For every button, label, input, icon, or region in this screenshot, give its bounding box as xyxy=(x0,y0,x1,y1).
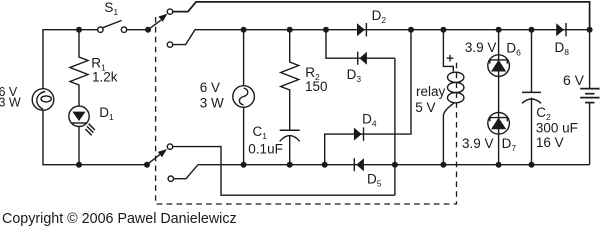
svg-text:D4: D4 xyxy=(362,111,377,128)
svg-text:relay: relay xyxy=(416,84,446,99)
svg-text:Copyright © 2006 Pawel Daniele: Copyright © 2006 Pawel Danielewicz xyxy=(2,211,237,227)
svg-text:D2: D2 xyxy=(372,8,387,25)
svg-text:3.9 V: 3.9 V xyxy=(465,40,497,55)
svg-text:D3: D3 xyxy=(347,67,362,84)
svg-text:D6: D6 xyxy=(506,40,521,57)
svg-text:1.2k: 1.2k xyxy=(92,70,118,85)
svg-text:6 V: 6 V xyxy=(200,80,220,95)
svg-text:3 W: 3 W xyxy=(200,95,224,110)
svg-text:D7: D7 xyxy=(502,136,517,153)
svg-text:6 V: 6 V xyxy=(563,72,585,88)
svg-text:D8: D8 xyxy=(555,40,570,57)
svg-text:0.1uF: 0.1uF xyxy=(248,142,283,157)
svg-text:D1: D1 xyxy=(99,105,114,122)
svg-text:C1: C1 xyxy=(253,124,268,141)
svg-text:150: 150 xyxy=(305,79,328,94)
svg-text:300 uF: 300 uF xyxy=(536,120,578,135)
svg-text:S1: S1 xyxy=(104,0,118,17)
svg-text:3 W: 3 W xyxy=(0,95,21,109)
svg-text:16 V: 16 V xyxy=(536,135,564,150)
svg-text:3.9 V: 3.9 V xyxy=(462,136,494,151)
svg-text:5 V: 5 V xyxy=(415,100,435,115)
svg-text:D5: D5 xyxy=(367,172,382,189)
